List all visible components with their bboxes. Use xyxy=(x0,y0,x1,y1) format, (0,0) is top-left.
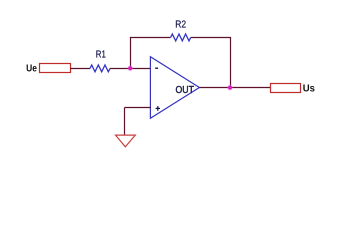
wire op-amp output to Us xyxy=(199,87,270,89)
ground symbol xyxy=(116,135,136,147)
wire R1 to op-amp inverting input xyxy=(110,68,150,70)
resistor R1 xyxy=(90,65,110,72)
svg-text:Ue: Ue xyxy=(26,63,37,74)
wire feedback riser left xyxy=(130,38,132,69)
svg-text:Us: Us xyxy=(303,83,316,94)
svg-text:R1: R1 xyxy=(96,49,106,60)
op-amp minus sign xyxy=(155,67,158,69)
port Ue box xyxy=(40,64,71,73)
wire ground stem xyxy=(124,108,126,136)
svg-text:R2: R2 xyxy=(175,20,186,31)
wire feedback riser right xyxy=(230,38,232,88)
wire top left to R2 xyxy=(130,37,171,39)
port Us box xyxy=(271,84,301,93)
wire non-inverting input xyxy=(125,107,151,109)
wire Ue to R1 xyxy=(71,68,91,70)
junction node at output xyxy=(227,85,233,91)
op-amp plus sign xyxy=(156,107,160,109)
op-amp U1 triangle xyxy=(150,57,199,119)
wire R2 to right corner xyxy=(191,37,231,39)
resistor R2 xyxy=(171,34,191,41)
svg-text:OUT: OUT xyxy=(176,85,194,96)
junction node at R1 output xyxy=(127,66,133,72)
